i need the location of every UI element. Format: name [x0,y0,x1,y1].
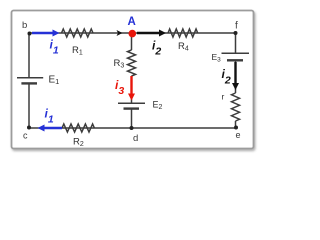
svg-text:e: e [236,130,241,140]
svg-text:d: d [133,133,138,144]
svg-text:c: c [23,131,28,141]
wire middle: E2 to d [131,109,133,128]
border frame [12,11,254,149]
svg-text:E1: E1 [49,75,60,87]
node d [130,126,134,130]
current arrow i1 top (blue) [32,30,60,37]
wire middle: R3 to E2 [131,76,133,103]
node b [28,32,32,36]
svg-text:r: r [222,91,225,101]
current arrow i2 right (black, pointing down) [232,62,239,90]
node e [234,126,238,130]
resistor R1 [62,29,94,37]
wire top: b to f [29,32,236,34]
wire left: E1 down to c [28,84,30,128]
svg-text:A: A [128,16,136,28]
current arrow i1 bottom (blue, pointing left) [38,125,63,132]
resistor R3 [128,50,136,76]
svg-text:b: b [22,20,27,31]
small arrowhead on wire into node A [117,30,123,36]
battery E2 [118,103,145,108]
current arrow i3 middle (red, pointing down) [128,76,135,101]
node f [234,31,238,35]
wire bottom: c to e [29,127,236,129]
wire right: E3 to r [235,61,237,93]
current arrow i2 top (black) [137,30,166,37]
battery E3 [222,53,250,60]
resistor r [232,93,240,121]
battery E1 [17,78,43,84]
node A [129,30,137,38]
wire right: f down to E3 [235,33,237,53]
wire left: b down to E1 [28,33,30,77]
wire right: r to e [235,121,237,128]
node c [27,126,31,130]
wire middle: A down to R3 [131,33,133,50]
resistor R2 [62,124,94,132]
svg-text:f: f [235,21,238,32]
resistor R4 [168,29,198,37]
